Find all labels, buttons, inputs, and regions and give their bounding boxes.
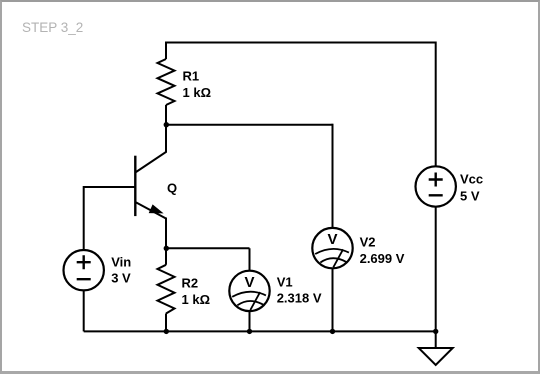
node V2 bottom junction — [330, 329, 335, 334]
svg-text:Q: Q — [167, 180, 177, 195]
wire R2 top lead — [165, 248, 167, 264]
svg-text:R2: R2 — [182, 276, 199, 291]
label V1 value — [277, 275, 322, 306]
node V1 bottom junction — [247, 329, 252, 334]
wire base lead — [84, 186, 136, 188]
svg-text:STEP 3_2: STEP 3_2 — [22, 20, 83, 35]
svg-text:V: V — [327, 231, 337, 248]
voltmeter V1 — [229, 271, 269, 311]
wire Vcc top lead — [435, 42, 437, 167]
node collector junction — [164, 122, 169, 127]
svg-text:1 kΩ: 1 kΩ — [182, 292, 211, 307]
wire R2 bottom lead — [165, 314, 167, 332]
wire V1 bottom lead — [249, 311, 251, 331]
ground — [419, 348, 453, 365]
resistor R2 — [158, 265, 175, 314]
svg-text:5 V: 5 V — [460, 189, 480, 204]
label V2 value — [360, 234, 405, 266]
wire Vin bottom lead — [83, 291, 85, 332]
voltmeter V2 — [312, 228, 352, 268]
wire V2 bottom lead — [332, 268, 334, 331]
wire emitter lead — [165, 218, 167, 249]
node ground junction — [433, 329, 438, 334]
transistor Q2 collector — [135, 125, 166, 173]
svg-text:1 kΩ: 1 kΩ — [183, 85, 212, 100]
label Vin value — [111, 254, 131, 285]
transistor Q base bar — [134, 156, 136, 216]
wire R1 top lead — [165, 42, 167, 60]
wire R1 bottom lead — [165, 105, 167, 125]
wire Vin top lead — [83, 186, 85, 250]
label R2 value — [182, 276, 211, 308]
svg-text:Vcc: Vcc — [460, 172, 483, 187]
resistor R1 — [158, 59, 175, 105]
wire ground lead — [435, 331, 437, 348]
wire V2 top lead — [332, 124, 334, 228]
transistor Q emitter with arrow — [135, 202, 166, 219]
node emitter junction — [164, 246, 169, 251]
wire collector node to V2 branch — [166, 124, 333, 126]
svg-text:V: V — [244, 274, 254, 291]
node R2 bottom junction — [164, 329, 169, 334]
source Vcc — [416, 166, 456, 206]
label R1 value — [183, 69, 212, 101]
wire bottom net — [84, 330, 436, 332]
label Q — [167, 180, 177, 195]
title STEP 3_2 — [22, 20, 83, 35]
wire Vcc bottom lead — [435, 207, 437, 332]
svg-text:3 V: 3 V — [111, 270, 131, 285]
svg-text:Vin: Vin — [111, 254, 131, 269]
svg-text:V1: V1 — [277, 275, 293, 290]
svg-text:V2: V2 — [360, 234, 376, 249]
source Vin — [63, 250, 103, 290]
wire emitter node to V1 — [166, 248, 250, 270]
svg-text:R1: R1 — [183, 69, 200, 84]
svg-text:2.318 V: 2.318 V — [277, 290, 322, 305]
svg-text:2.699 V: 2.699 V — [360, 251, 405, 266]
wire top net (R1 top to Vcc top) — [166, 42, 436, 44]
label Vcc value — [460, 172, 483, 204]
